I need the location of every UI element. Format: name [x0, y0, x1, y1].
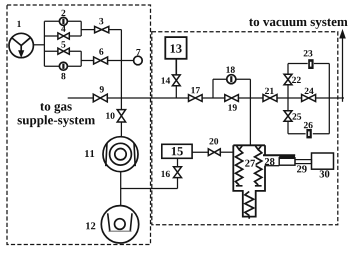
text to gas supple-system — [40, 103, 72, 113]
label 7 — [136, 49, 140, 55]
pump 12 — [101, 206, 138, 243]
wire junction to vessel 27 — [249, 98, 251, 145]
label 22 — [292, 77, 301, 83]
label 18 — [226, 66, 234, 72]
vessel 27 neck spring — [245, 192, 254, 219]
valve 10 — [117, 110, 125, 122]
port 28 bottom wall — [265, 165, 280, 167]
wire elbow vertical down — [120, 30, 122, 110]
pump 11 — [103, 137, 138, 172]
label 24 — [305, 88, 314, 94]
wire valve17 to valve19 — [202, 97, 225, 99]
port 7 circle — [134, 56, 143, 65]
wire gauge18 line — [213, 78, 250, 80]
wire valve5 line — [44, 50, 81, 52]
label 25 — [292, 113, 301, 119]
wire valve14 to main line — [175, 86, 177, 98]
valve 9 — [93, 94, 107, 102]
valve 3 — [95, 26, 109, 32]
label 3 — [99, 18, 103, 24]
left dashed enclosure (gas supply section) — [7, 5, 151, 245]
text to vacuum system — [249, 19, 348, 29]
label 1 — [17, 21, 20, 27]
valve 5 — [58, 48, 69, 54]
wire pump11 to pump12 — [120, 172, 122, 206]
wire gauge8 line — [44, 65, 81, 67]
label 30 — [320, 170, 330, 177]
valve 20 — [208, 149, 220, 156]
valve 4 — [58, 33, 69, 39]
wire valve16 down to pump branch — [177, 178, 179, 189]
wire top loop output to valve 3 — [81, 29, 94, 31]
wire top bypass to comp 23 — [288, 63, 308, 65]
label 5 — [61, 41, 65, 47]
wire gauge18 loop right edge — [249, 79, 251, 98]
label 10 — [106, 112, 114, 118]
wire valve20 to vessel — [220, 151, 233, 153]
port 28 top wall — [263, 154, 295, 156]
label 2 — [61, 10, 65, 16]
wire box13 to valve 14 — [175, 59, 177, 75]
valve 19 — [225, 95, 239, 102]
wire gauge18 loop left edge — [212, 79, 214, 98]
actuator box 30 — [312, 153, 334, 169]
transfer rod 29 — [279, 156, 311, 165]
label 17 — [191, 87, 200, 93]
wire comp23 to rejoin — [314, 64, 329, 99]
label 28 — [265, 158, 275, 165]
wire bypass vertical at junction — [287, 64, 289, 111]
wire top loop right edge — [80, 21, 82, 36]
label 19 — [228, 104, 236, 110]
label 6 — [99, 48, 103, 54]
wire gauge2 line — [44, 20, 81, 22]
vessel 27 left spring — [236, 146, 243, 186]
valve 6 — [94, 57, 108, 64]
label 26 — [304, 122, 313, 128]
label 12 — [86, 222, 95, 229]
vessel 27 outline — [233, 145, 265, 216]
gauge 8 — [59, 62, 67, 70]
wire source to bus — [33, 44, 44, 46]
wire gas main line left — [68, 97, 94, 99]
valve 16 — [174, 167, 182, 178]
gauge 2 — [59, 17, 67, 25]
valve 14 — [172, 75, 180, 86]
box 15 — [162, 144, 192, 158]
label 16 — [161, 171, 169, 177]
gas source 1 — [9, 33, 33, 57]
label 11 — [85, 150, 94, 157]
wire valve4 line — [44, 35, 81, 37]
label 27 — [245, 160, 255, 167]
label 21 — [265, 88, 274, 94]
wire valve24 to riser — [316, 97, 344, 99]
gauge 18 — [227, 75, 236, 84]
valve 22 — [284, 74, 292, 85]
wire box15 to valve 16 — [177, 158, 179, 167]
valve 17 — [189, 95, 203, 102]
valve 25 — [284, 111, 292, 122]
label 20 — [209, 138, 218, 144]
wire valve21 to valve24 — [277, 97, 302, 99]
label 9 — [100, 86, 104, 92]
comp 23 restrictor — [308, 59, 313, 69]
wire pump junction to valve 16 branch — [121, 188, 178, 190]
riser arrowhead — [340, 30, 346, 38]
label 13 — [171, 44, 182, 52]
label 4 — [61, 25, 65, 31]
label 14 — [162, 77, 171, 83]
wire bus vertical — [43, 21, 45, 66]
wire bottom loop right edge — [80, 51, 82, 66]
wire comp26 to rejoin — [313, 98, 330, 134]
wire valve19 to junction — [238, 97, 263, 99]
label 15 — [172, 147, 183, 155]
wire valve10 to pump 11 — [120, 122, 122, 137]
wire gas main line to valve 17 — [107, 97, 188, 99]
wire bottom bypass down — [288, 121, 306, 133]
wire vacuum riser — [342, 37, 344, 102]
comp 26 restrictor — [306, 129, 311, 138]
wire bottom loop output to valve 6 — [81, 60, 93, 62]
valve 21 — [263, 95, 277, 102]
label 8 — [61, 73, 65, 79]
label 27 halo — [244, 158, 256, 167]
label 29 — [297, 165, 307, 172]
wire box15 to valve 20 — [192, 151, 208, 153]
label 23 — [304, 50, 313, 56]
valve 24 — [302, 95, 316, 102]
right dashed enclosure (vacuum section) — [152, 32, 338, 225]
wire valve6 to port 7 — [108, 60, 134, 62]
vessel 27 right spring — [255, 146, 262, 186]
wire valve3 to elbow — [109, 29, 122, 31]
box 13 — [165, 37, 186, 59]
